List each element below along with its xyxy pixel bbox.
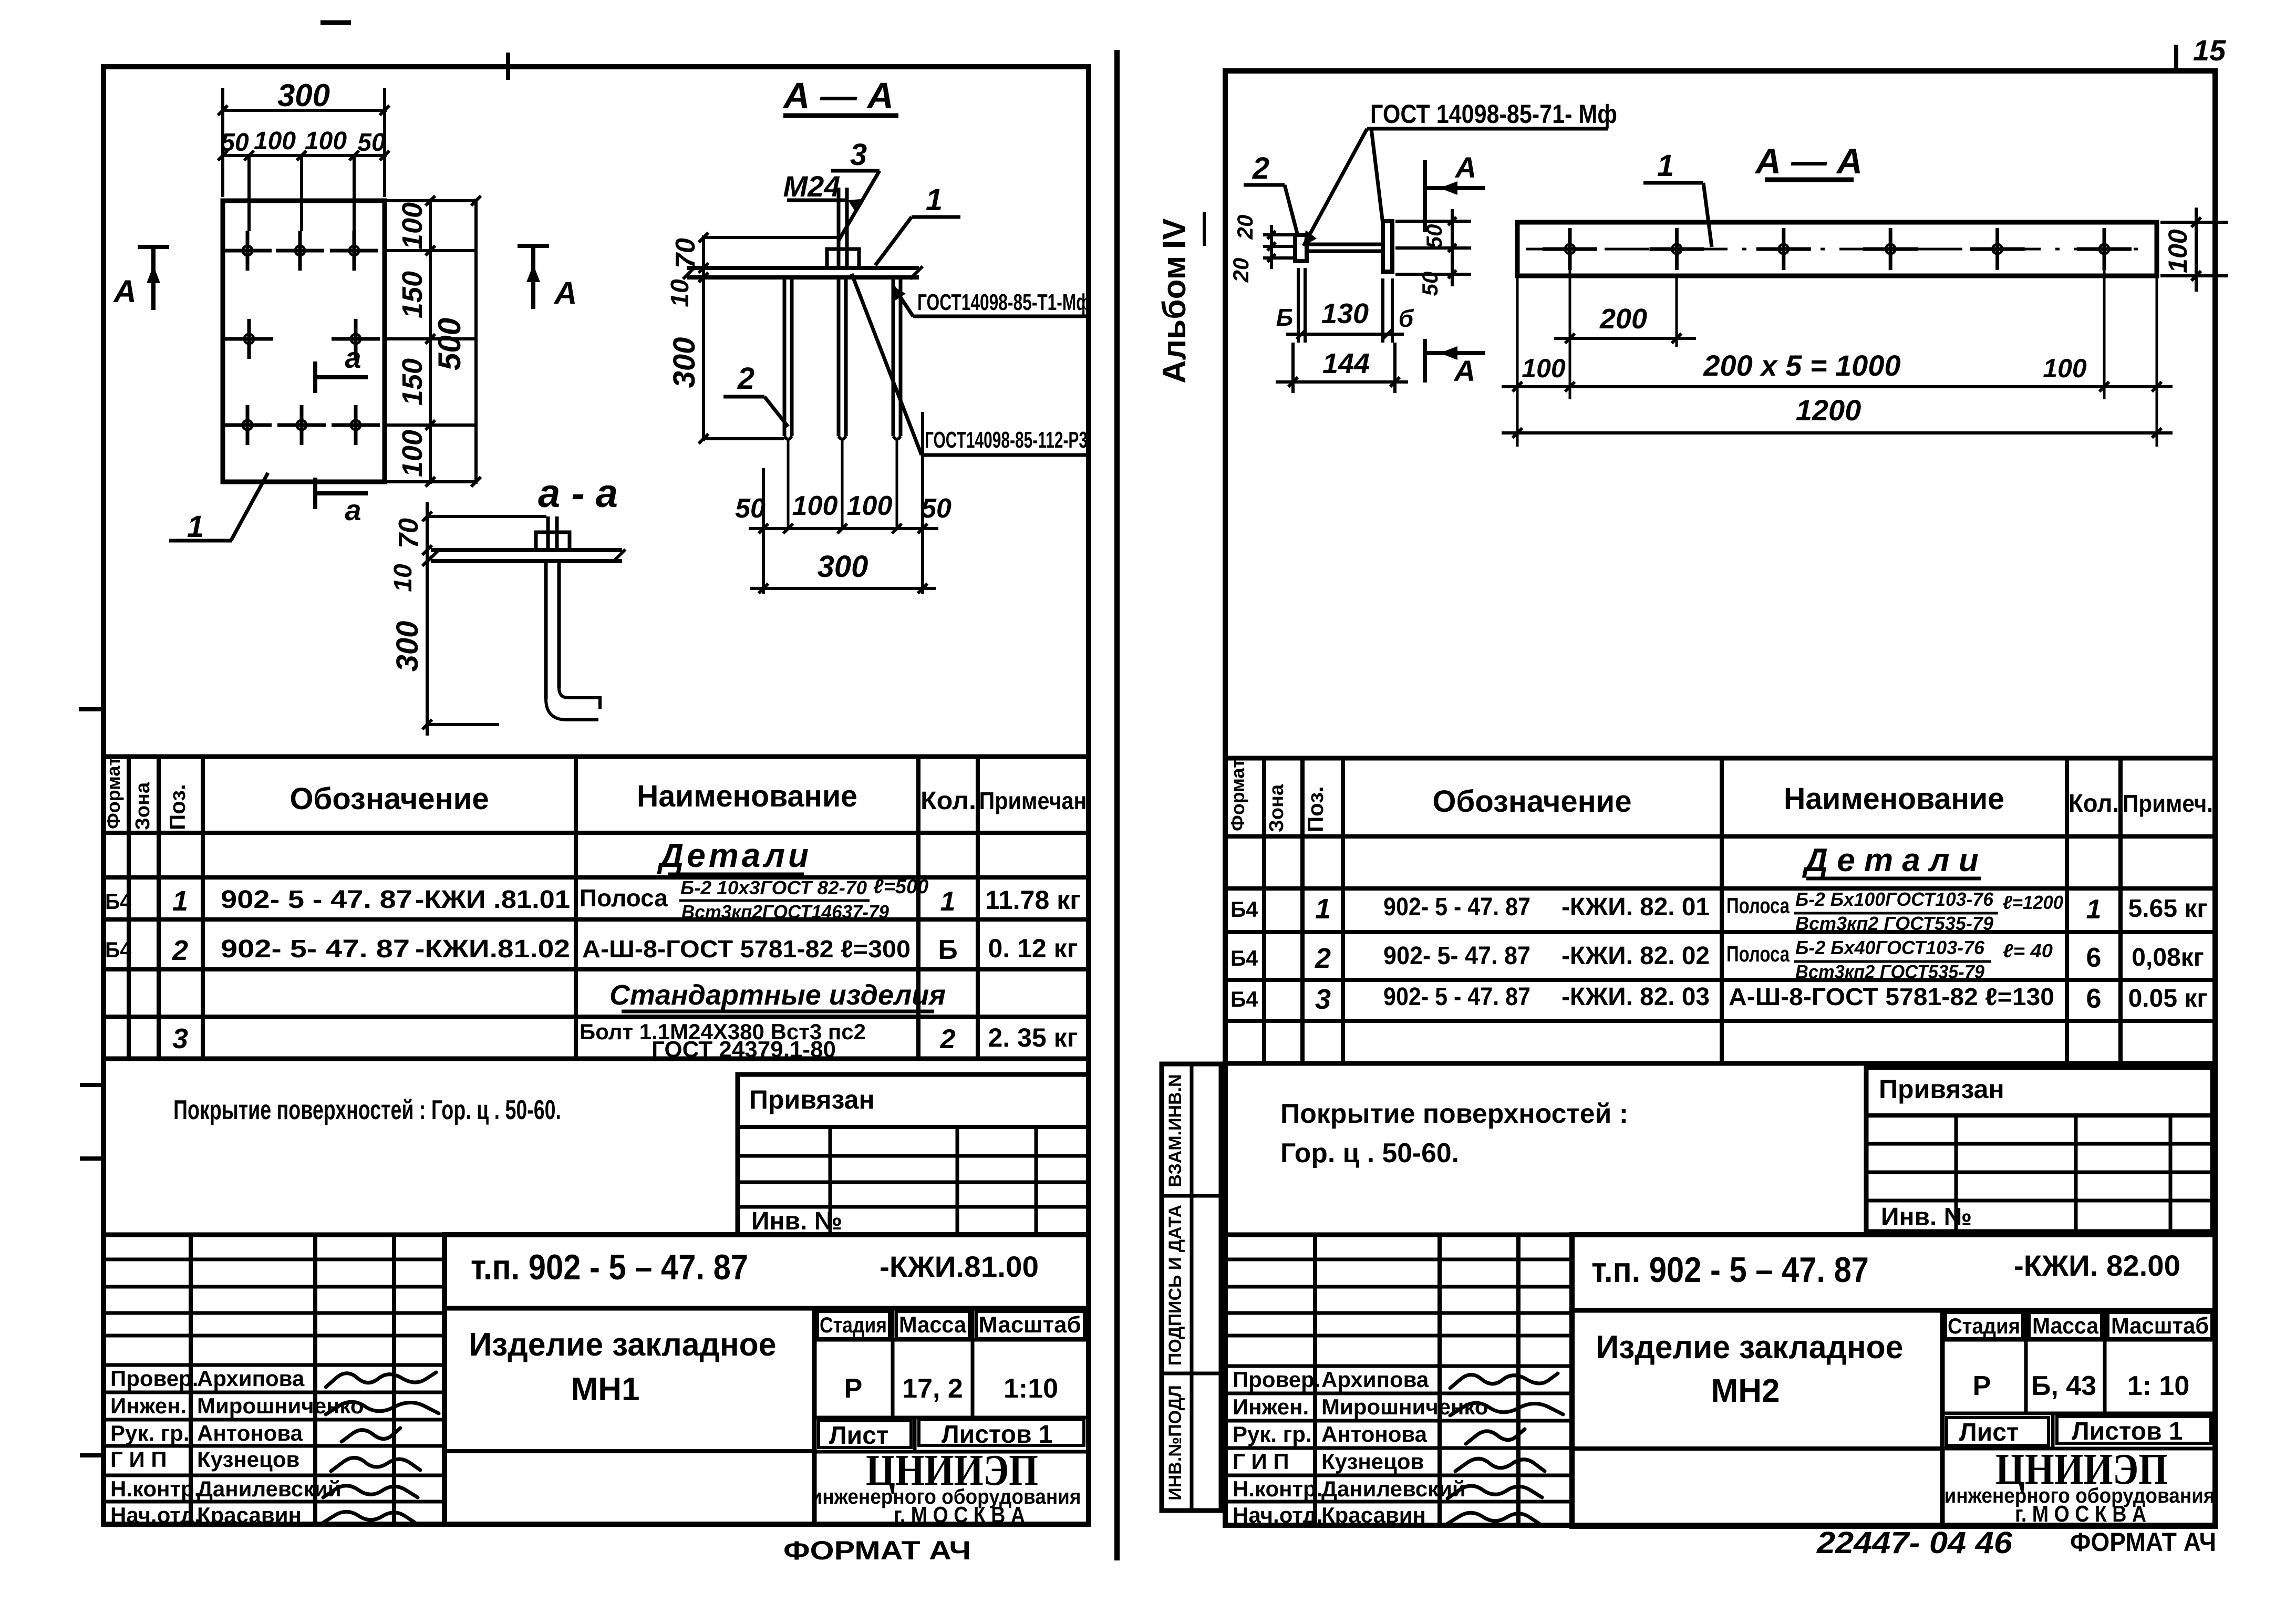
svg-text:150: 150 (397, 358, 428, 406)
svg-text:Антонова: Антонова (197, 1421, 303, 1445)
svg-text:Полоса: Полоса (580, 884, 668, 912)
svg-text:-КЖИ. 82.00: -КЖИ. 82.00 (2014, 1249, 2180, 1282)
svg-text:г. М О С К В А: г. М О С К В А (2015, 1501, 2146, 1527)
svg-text:3: 3 (172, 1023, 188, 1054)
svg-text:100: 100 (397, 202, 428, 250)
svg-text:1: 1 (926, 183, 943, 217)
left sheet frame (104, 67, 1089, 1524)
plan view holes row 2 (225, 337, 273, 341)
right A-A height dim 100 (2160, 221, 2228, 224)
svg-text:Поз.: Поз. (165, 784, 190, 830)
svg-text:Инжен.: Инжен. (1233, 1394, 1309, 1419)
svg-text:Масса: Масса (899, 1312, 966, 1338)
svg-text:300: 300 (667, 337, 701, 388)
svg-text:Провер.: Провер. (110, 1366, 198, 1391)
svg-text:Кузнецов: Кузнецов (1321, 1449, 1424, 1474)
svg-text:ФОРМАТ АЧ: ФОРМАТ АЧ (2070, 1527, 2216, 1557)
right sheet signature table (1225, 1233, 1572, 1237)
svg-text:50: 50 (221, 129, 249, 157)
svg-text:ГОСТ14098-85-112-Р3: ГОСТ14098-85-112-Р3 (925, 427, 1088, 453)
right A-A dim 200 between holes 1-2 (1569, 263, 1571, 347)
svg-text:20: 20 (1228, 258, 1253, 283)
svg-text:Б: Б (938, 935, 957, 965)
svg-text:150: 150 (397, 271, 428, 318)
svg-text:Альбом: Альбом (1156, 256, 1193, 384)
svg-text:Б-2 10х3ГОСТ 82-70: Б-2 10х3ГОСТ 82-70 (680, 877, 867, 898)
svg-text:Нач.отд.: Нач.отд. (110, 1503, 201, 1527)
right title block product name cell (1940, 1310, 1945, 1526)
svg-text:22447- 04 46: 22447- 04 46 (1816, 1526, 2013, 1560)
svg-text:Обозначение: Обозначение (289, 782, 489, 816)
A-A bottom overall dimension 300 (750, 587, 936, 590)
svg-text:-КЖИ.81.02: -КЖИ.81.02 (415, 935, 570, 963)
right sheet parts specification table (1225, 758, 2215, 1063)
right sheet inventory strip outside frame (1162, 1064, 1221, 1511)
svg-text:Б4: Б4 (1230, 897, 1258, 922)
left sheet Привязан reference box (738, 1074, 1089, 1235)
svg-text:Стандартные изделия: Стандартные изделия (609, 979, 946, 1011)
fold tick left edge upper (79, 707, 106, 711)
svg-text:144: 144 (1322, 348, 1370, 379)
svg-text:г. М О С К В А: г. М О С К В А (894, 1502, 1025, 1528)
svg-text:1: 10: 1: 10 (2127, 1371, 2190, 1401)
svg-text:11.78 кг: 11.78 кг (985, 885, 1081, 915)
right side view part 2 small plate (1295, 235, 1307, 261)
left signatures squiggles (326, 1372, 436, 1387)
svg-text:Кол.: Кол. (2069, 790, 2119, 818)
right A-A strip 1200x100 outline (1517, 222, 2157, 276)
svg-text:Стадия: Стадия (1948, 1314, 2020, 1338)
svg-text:a: a (345, 493, 361, 526)
svg-text:-КЖИ .81.01: -КЖИ .81.01 (415, 886, 570, 914)
svg-text:3: 3 (850, 138, 867, 172)
fold tick above top frame (506, 53, 510, 80)
svg-text:Р: Р (844, 1373, 863, 1404)
svg-text:300: 300 (390, 621, 425, 672)
svg-text:Поз.: Поз. (1303, 786, 1328, 832)
svg-text:ℓ= 40: ℓ= 40 (2003, 940, 2053, 961)
svg-text:Данилевский: Данилевский (1321, 1476, 1466, 1501)
section mark a upper inside plate (313, 361, 317, 393)
svg-text:2: 2 (1252, 151, 1269, 185)
svg-text:ГОСТ 24379.1-80: ГОСТ 24379.1-80 (651, 1037, 836, 1062)
svg-text:т.п. 902 - 5 – 47. 87: т.п. 902 - 5 – 47. 87 (471, 1247, 748, 1287)
A-A plate in section (687, 266, 919, 270)
fold tick top left area (320, 20, 351, 25)
svg-text:2: 2 (737, 361, 754, 396)
svg-text:Архипова: Архипова (197, 1366, 305, 1391)
svg-text:Кузнецов: Кузнецов (197, 1447, 299, 1472)
svg-text:2: 2 (172, 935, 188, 966)
svg-text:Провер.: Провер. (1233, 1367, 1320, 1392)
svg-text:200 х 5 = 1000: 200 х 5 = 1000 (1703, 349, 1900, 382)
svg-text:Б4: Б4 (1230, 946, 1258, 970)
svg-text:6: 6 (2086, 943, 2102, 973)
svg-text:902- 5- 47. 87: 902- 5- 47. 87 (221, 935, 410, 963)
plan view holes row 1 (223, 249, 272, 253)
svg-text:Б, 43: Б, 43 (2031, 1371, 2096, 1401)
svg-text:Н.контр.: Н.контр. (1233, 1476, 1322, 1501)
svg-text:Стадия: Стадия (820, 1312, 887, 1337)
left sheet title block outer frame (444, 1235, 1089, 1524)
svg-text:0. 12 кг: 0. 12 кг (988, 934, 1078, 963)
svg-text:Масштаб: Масштаб (979, 1312, 1081, 1338)
left title block stage mass scale values (814, 1416, 1089, 1420)
svg-text:А — А: А — А (782, 75, 894, 116)
svg-text:IV: IV (1156, 218, 1193, 249)
svg-text:Формат: Формат (102, 757, 124, 829)
right side view dim Б 130 Б (1297, 268, 1300, 343)
svg-text:Б-2 Бх100ГОСТ103-76: Б-2 Бх100ГОСТ103-76 (1795, 888, 1994, 910)
plan view top dimension chain 50 100 100 50 (221, 154, 387, 157)
svg-text:Полоса: Полоса (1726, 893, 1790, 918)
svg-text:А: А (112, 274, 136, 309)
svg-text:Привязан: Привязан (749, 1085, 875, 1114)
svg-text:ГОСТ14098-85-Т1-Мф: ГОСТ14098-85-Т1-Мф (917, 289, 1091, 315)
A-A bolt 3 shank above plate (837, 188, 841, 267)
svg-text:100: 100 (397, 430, 428, 477)
svg-text:Инв. №: Инв. № (751, 1207, 842, 1235)
svg-text:Б4: Б4 (105, 889, 132, 914)
A-A bolt head (827, 249, 859, 268)
svg-text:Листов 1: Листов 1 (2072, 1418, 2183, 1445)
svg-text:70: 70 (394, 518, 424, 549)
svg-text:Изделие закладное: Изделие закладное (1596, 1329, 1904, 1366)
svg-text:Рук. гр.: Рук. гр. (110, 1421, 190, 1445)
svg-text:300: 300 (818, 550, 868, 584)
svg-text:Вст3кп2ГОСТ14637-79: Вст3кп2ГОСТ14637-79 (681, 901, 889, 923)
section mark A left of plate (138, 245, 169, 249)
A-A bottom dimension chain 50 100 100 50 (749, 527, 938, 530)
svg-text:Кол.: Кол. (921, 787, 976, 815)
svg-text:1:10: 1:10 (1004, 1373, 1058, 1404)
plan view right dimension chain 100 150 150 100 (429, 199, 432, 484)
svg-text:ℓ=1200: ℓ=1200 (2003, 892, 2063, 913)
svg-text:Вст3кп2 ГОСТ535-79: Вст3кп2 ГОСТ535-79 (1795, 961, 1984, 983)
right A-A centre line dash-dot (1526, 248, 2149, 251)
svg-text:902- 5 - 47. 87: 902- 5 - 47. 87 (221, 886, 412, 914)
svg-text:-КЖИ. 82. 01: -КЖИ. 82. 01 (1561, 893, 1710, 921)
left sheet parts specification table (104, 757, 1089, 1059)
svg-text:3: 3 (1315, 984, 1331, 1015)
svg-text:Лист: Лист (1959, 1419, 2019, 1446)
svg-text:М24: М24 (783, 170, 841, 203)
svg-text:2. 35 кг: 2. 35 кг (988, 1023, 1078, 1052)
right title block sheet row (1942, 1447, 2215, 1451)
svg-text:1: 1 (2086, 894, 2102, 925)
svg-text:Б: Б (1276, 304, 1294, 331)
svg-text:А: А (1454, 151, 1476, 184)
svg-text:20: 20 (1233, 215, 1257, 240)
svg-text:ГОСТ 14098-85-71- Мф: ГОСТ 14098-85-71- Мф (1370, 99, 1617, 129)
svg-text:200: 200 (1599, 303, 1647, 335)
svg-text:100: 100 (792, 491, 838, 521)
svg-text:100: 100 (847, 491, 893, 521)
svg-text:А: А (1453, 354, 1475, 387)
svg-text:2: 2 (1315, 943, 1331, 974)
svg-text:10: 10 (389, 564, 417, 592)
left title block sheet row (814, 1450, 1089, 1454)
svg-text:Рук. гр.: Рук. гр. (1233, 1422, 1312, 1446)
right side view rod between plates (1307, 243, 1383, 246)
svg-text:Детали: Детали (657, 836, 812, 874)
svg-text:Гор. ц . 50-60.: Гор. ц . 50-60. (1280, 1138, 1459, 1169)
right A-A dim line 100 200x5=1000 100 (1516, 276, 1519, 447)
fold tick left edge lower (80, 1453, 106, 1457)
svg-text:Наименование: Наименование (637, 779, 857, 813)
central divider line between the two sheets (1114, 50, 1120, 1560)
svg-text:50: 50 (1422, 224, 1446, 249)
right side view long strip edge-on (1383, 221, 1392, 272)
svg-text:Покрытие поверхностей :: Покрытие поверхностей : (1280, 1099, 1628, 1129)
svg-text:1: 1 (1657, 149, 1674, 183)
svg-text:100: 100 (2043, 354, 2087, 383)
svg-text:50: 50 (1418, 272, 1442, 296)
svg-text:А-Ш-8-ГОСТ 5781-82 ℓ=130: А-Ш-8-ГОСТ 5781-82 ℓ=130 (1729, 983, 2054, 1010)
svg-text:Изделие закладное: Изделие закладное (469, 1327, 777, 1363)
svg-text:6: 6 (2086, 984, 2102, 1014)
left title block row1 divider (444, 1306, 1089, 1311)
right A-A overall dim 1200 (1502, 431, 2173, 435)
plan view top dimension 300 (221, 109, 387, 112)
svg-text:902- 5 - 47. 87: 902- 5 - 47. 87 (1383, 983, 1530, 1011)
svg-text:Нач.отд.: Нач.отд. (1233, 1503, 1323, 1527)
right side view dims 50 50 right (1395, 220, 1471, 223)
svg-text:Листов 1: Листов 1 (942, 1421, 1053, 1449)
svg-text:-КЖИ. 82. 02: -КЖИ. 82. 02 (1561, 942, 1710, 970)
plan view holes row 3 (223, 423, 272, 427)
svg-text:2: 2 (940, 1024, 956, 1054)
right title block row1 (1572, 1308, 2215, 1313)
right side view section mark A top (1423, 160, 1427, 232)
a-a bolt head and nut (536, 532, 570, 550)
svg-text:-КЖИ.81.00: -КЖИ.81.00 (880, 1250, 1039, 1283)
svg-text:17, 2: 17, 2 (902, 1373, 963, 1404)
right sheet Привязан reference box (1866, 1068, 2212, 1232)
right A-A holes (1543, 247, 1597, 251)
svg-text:б: б (1399, 305, 1414, 332)
left title block product name cell (812, 1308, 817, 1524)
svg-text:1: 1 (187, 510, 204, 544)
svg-text:Зона: Зона (132, 782, 154, 830)
svg-text:70: 70 (670, 238, 701, 268)
svg-text:Н.контр.: Н.контр. (110, 1476, 200, 1501)
right side view dim 144 (1276, 380, 1408, 384)
svg-text:А: А (553, 275, 577, 311)
svg-text:Архипова: Архипова (1321, 1367, 1429, 1392)
svg-text:ИНВ.№ПОДЛ: ИНВ.№ПОДЛ (1165, 1385, 1185, 1500)
svg-text:А-Ш-8-ГОСТ 5781-82 ℓ=300: А-Ш-8-ГОСТ 5781-82 ℓ=300 (582, 935, 911, 963)
svg-text:МН1: МН1 (571, 1371, 640, 1408)
svg-text:ФОРМАТ АЧ: ФОРМАТ АЧ (783, 1536, 971, 1565)
svg-text:Антонова: Антонова (1321, 1422, 1428, 1446)
A-A left dimension 300 (702, 277, 705, 441)
svg-text:500: 500 (432, 318, 467, 370)
part label 1 with leader (plan view) (231, 473, 268, 540)
right title block stage mass scale values (1942, 1412, 2215, 1415)
plan view: plate 300x500 outline (223, 201, 385, 482)
svg-text:50: 50 (735, 493, 766, 524)
svg-text:Б4: Б4 (105, 937, 132, 962)
svg-text:a - a: a - a (538, 471, 618, 516)
svg-text:-КЖИ. 82. 03: -КЖИ. 82. 03 (1561, 983, 1710, 1011)
A-A left dimension 70 and 10 (702, 235, 705, 278)
svg-text:Инжен.: Инжен. (110, 1393, 187, 1418)
svg-text:ВЗАМ.ИНВ.N: ВЗАМ.ИНВ.N (1165, 1074, 1185, 1187)
svg-text:Покрытие поверхностей : Гор.: Покрытие поверхностей : Гор. ц . 50-60. (173, 1095, 561, 1125)
a-a left dimension 70 10 300 (426, 502, 429, 736)
svg-text:15: 15 (2193, 34, 2226, 67)
svg-text:Г И П: Г И П (110, 1447, 167, 1472)
svg-text:А — А: А — А (1754, 141, 1863, 181)
left sheet signature table (104, 1233, 444, 1237)
right side view weld leader lines (1304, 129, 1367, 246)
section mark a lower inside plate (313, 478, 317, 509)
right sheet title block outer frame (1572, 1235, 2215, 1526)
svg-text:Красавин: Красавин (197, 1503, 302, 1527)
plan view right overall dimension 500 (474, 199, 478, 484)
svg-text:МН2: МН2 (1711, 1373, 1780, 1409)
svg-text:1: 1 (940, 886, 956, 917)
svg-text:100: 100 (305, 127, 347, 155)
fold tick left edge mid1 (80, 1083, 106, 1087)
fold tick left edge mid2 (80, 1156, 106, 1161)
svg-text:0,08кг: 0,08кг (2132, 944, 2204, 971)
section mark A right of plate (518, 244, 549, 248)
svg-text:1: 1 (172, 885, 188, 917)
right sheet frame (1225, 71, 2215, 1525)
svg-text:130: 130 (1321, 298, 1369, 329)
svg-text:Инв. №: Инв. № (1881, 1203, 1972, 1231)
svg-text:Г И П: Г И П (1233, 1449, 1289, 1474)
svg-text:1: 1 (1315, 893, 1331, 925)
svg-text:Б-2 Бх40ГОСТ103-76: Б-2 Бх40ГОСТ103-76 (1795, 937, 1985, 958)
right side view section mark A bottom (1423, 339, 1427, 382)
svg-text:50: 50 (921, 493, 952, 524)
svg-text:902- 5 - 47. 87: 902- 5 - 47. 87 (1383, 893, 1530, 921)
svg-text:300: 300 (277, 78, 330, 113)
svg-text:Формат: Формат (1227, 759, 1248, 831)
svg-text:100: 100 (254, 127, 296, 155)
a-a bolt shank above plate (546, 516, 550, 549)
right title block stage mass scale header (1942, 1338, 2215, 1342)
svg-text:Привязан: Привязан (1879, 1074, 2004, 1104)
svg-text:100: 100 (1522, 354, 1566, 383)
svg-text:Наименование: Наименование (1784, 782, 2004, 816)
svg-text:Примеч.: Примеч. (2123, 790, 2213, 817)
svg-text:т.п. 902 - 5 – 47. 87: т.п. 902 - 5 – 47. 87 (1591, 1250, 1869, 1290)
svg-text:Примечан: Примечан (979, 787, 1087, 814)
svg-text:a: a (345, 341, 361, 374)
svg-text:Масштаб: Масштаб (2111, 1313, 2209, 1339)
svg-text:ℓ=500: ℓ=500 (873, 876, 928, 898)
svg-text:Б4: Б4 (1230, 987, 1258, 1011)
svg-text:5.65 кг: 5.65 кг (2128, 895, 2208, 923)
svg-text:Зона: Зона (1266, 784, 1288, 832)
A-A anchor rods pos 2 (783, 277, 787, 436)
svg-text:10: 10 (666, 279, 694, 307)
left title block stage mass scale header (814, 1338, 1089, 1342)
svg-text:1200: 1200 (1796, 394, 1861, 427)
svg-text:Данилевский: Данилевский (197, 1476, 342, 1501)
a-a plate in section (431, 548, 622, 552)
svg-text:Д е т а л и: Д е т а л и (1802, 842, 1978, 878)
svg-text:Вст3кп2 ГОСТ535-79: Вст3кп2 ГОСТ535-79 (1795, 913, 1993, 934)
svg-text:50: 50 (357, 129, 386, 157)
svg-text:Полоса: Полоса (1726, 942, 1790, 966)
right signatures squiggles (1450, 1373, 1558, 1388)
a-a L-shaped anchor bolt (544, 561, 548, 699)
svg-text:100: 100 (2163, 229, 2192, 273)
right side view dims 20 20 left (1263, 233, 1295, 236)
svg-text:0.05 кг: 0.05 кг (2128, 985, 2208, 1012)
svg-text:Красавин: Красавин (1321, 1503, 1426, 1527)
svg-text:Р: Р (1973, 1371, 1991, 1401)
svg-text:Обозначение: Обозначение (1432, 784, 1631, 819)
svg-text:902- 5- 47. 87: 902- 5- 47. 87 (1383, 942, 1530, 970)
svg-text:Масса: Масса (2032, 1313, 2098, 1339)
svg-text:ПОДПИСЬ И ДАТА: ПОДПИСЬ И ДАТА (1165, 1205, 1185, 1366)
